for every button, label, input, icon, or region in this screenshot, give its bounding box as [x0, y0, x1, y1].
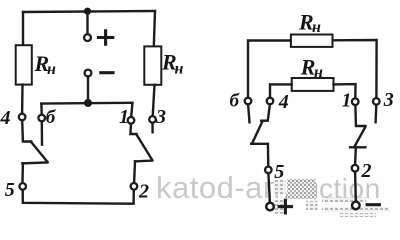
- wire contact 5 to plus terminal: [268, 173, 270, 203]
- svg-text:н: н: [314, 64, 323, 81]
- wire contact 2 to minus terminal: [354, 172, 357, 202]
- svg-text:н: н: [312, 19, 321, 36]
- plus sign right circuit: [279, 205, 291, 208]
- svg-text:4: 4: [0, 107, 11, 129]
- svg-text:н: н: [175, 60, 184, 77]
- wire contact b stub: [41, 121, 44, 145]
- wire contact 1 stub right circuit: [355, 105, 365, 126]
- wire bottom rail left circuit: [23, 190, 134, 204]
- wire minus terminal drop: [87, 76, 89, 102]
- node 5 contact circle: [19, 183, 26, 190]
- wire second rail right side to contact 1: [334, 84, 356, 98]
- switch pivot bar S3: [251, 143, 268, 145]
- node 4 contact circle: [19, 114, 26, 121]
- switch blade S2: [137, 135, 153, 161]
- node 3 contact circle right circuit: [373, 98, 380, 105]
- wire bar to contact 2 right circuit: [354, 147, 357, 165]
- node b contact circle: [38, 115, 45, 122]
- wire contact 4 stub: [22, 120, 31, 141]
- wire contact 3 stub: [151, 123, 154, 133]
- watermark noise row2: [322, 207, 390, 212]
- svg-text:1: 1: [119, 106, 129, 128]
- switch blade S4: [355, 127, 366, 146]
- watermark noise patch below u: [306, 201, 318, 211]
- junction top rail: [84, 8, 91, 15]
- resistor RH4 (second, right circuit): [292, 78, 334, 91]
- wire mid rail left bend to b: [40, 104, 43, 115]
- watermark dither over Au: [287, 179, 316, 199]
- switch pivot bar S1: [22, 162, 47, 163]
- wire contact b stub right circuit: [248, 104, 249, 122]
- minus sign left circuit: [101, 71, 113, 74]
- node b contact circle right circuit: [245, 98, 252, 105]
- minus sign right circuit: [367, 203, 379, 206]
- plus supply terminal circle right circuit: [266, 203, 274, 211]
- wire bar to contact 2: [133, 161, 136, 183]
- plus sign left circuit: [99, 36, 113, 39]
- switch pivot bar S4: [350, 146, 365, 148]
- wire resistor to contact 4: [21, 85, 24, 114]
- watermark noise patch left of plus lower: [274, 200, 285, 214]
- wire right circuit top rail right side: [333, 40, 377, 98]
- svg-text:3: 3: [155, 106, 166, 128]
- wire right branch down to resistor: [154, 11, 155, 47]
- svg-text:1: 1: [342, 89, 352, 111]
- node 2 contact circle: [131, 183, 138, 190]
- wire mid rail right bend to 1: [131, 103, 132, 117]
- switch blade S3: [252, 121, 262, 143]
- svg-text:katod-an: katod-an: [156, 170, 281, 205]
- minus supply terminal circle right circuit: [352, 202, 360, 210]
- wire bar to contact 5 right circuit: [267, 144, 270, 167]
- wire mid rail: [41, 102, 132, 105]
- svg-text:3: 3: [383, 89, 394, 111]
- wire top rail left circuit: [23, 11, 155, 12]
- node 5 contact circle right circuit: [265, 167, 272, 174]
- resistor RH right: [144, 46, 161, 84]
- wire left branch down to resistor: [22, 12, 24, 46]
- svg-text:5: 5: [5, 179, 15, 201]
- resistor RH3 (top, right circuit): [291, 35, 333, 47]
- watermark noise patch left of plus upper: [274, 179, 286, 195]
- watermark noise row1: [322, 198, 366, 203]
- node 1 contact circle: [128, 117, 135, 124]
- plus supply terminal circle left circuit: [84, 34, 91, 41]
- wire right circuit top rail left side: [248, 41, 291, 98]
- minus supply terminal circle left circuit: [85, 70, 92, 77]
- resistor RH left: [16, 45, 32, 84]
- node 3 contact circle: [149, 116, 156, 123]
- svg-text:б: б: [46, 107, 57, 128]
- wire second rail left side to contact 4: [270, 84, 292, 97]
- node 2 contact circle right circuit: [352, 165, 359, 172]
- switch blade S1: [31, 142, 47, 162]
- wire contact 1 stub: [130, 124, 136, 134]
- svg-text:4: 4: [278, 91, 289, 113]
- node 1 contact circle right circuit: [352, 98, 359, 105]
- svg-text:2: 2: [138, 181, 149, 203]
- wire plus terminal drop: [86, 11, 88, 34]
- wire resistor to contact 3: [153, 85, 155, 116]
- svg-text:2: 2: [361, 160, 372, 182]
- svg-text:н: н: [47, 61, 56, 78]
- wire contact 3 stub right circuit: [374, 105, 377, 122]
- wire contact 4 stub right circuit: [261, 104, 270, 120]
- wire bar to contact 5: [21, 163, 24, 181]
- svg-text:б: б: [230, 90, 241, 111]
- svg-text:5: 5: [274, 161, 284, 183]
- junction mid rail: [84, 99, 92, 107]
- watermark noise row3: [340, 213, 376, 217]
- switch pivot bar S2: [135, 159, 152, 162]
- node 4 contact circle right circuit: [267, 98, 274, 105]
